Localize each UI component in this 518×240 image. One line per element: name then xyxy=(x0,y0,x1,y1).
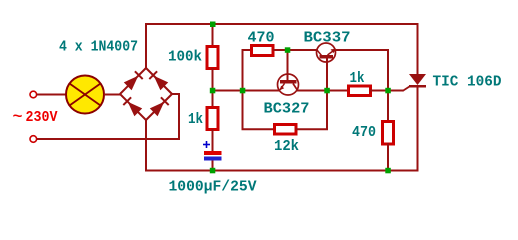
resistor 1k left xyxy=(207,108,218,130)
resistor 100k xyxy=(207,47,218,69)
wire BC327 base vertical xyxy=(287,50,289,80)
node 470-right bottom rail xyxy=(385,168,391,174)
diode D1 top-left xyxy=(124,71,143,90)
resistor 470 right xyxy=(383,122,394,145)
svg-text:1000µF/25V: 1000µF/25V xyxy=(169,179,257,196)
svg-text:230V: 230V xyxy=(26,109,58,126)
svg-text:470: 470 xyxy=(248,30,275,47)
svg-text:4 x 1N4007: 4 x 1N4007 xyxy=(59,39,138,56)
diode D2 top-right xyxy=(149,71,168,90)
node mid rail 470-left/12k xyxy=(240,88,246,94)
wire mid rail BC327 to node xyxy=(297,90,349,92)
svg-text:470: 470 xyxy=(352,124,376,141)
diode D3 bottom-left xyxy=(123,97,142,116)
terminal bottom-left xyxy=(30,136,37,143)
wire lamp to bridge xyxy=(104,94,121,96)
wire terminal to lamp xyxy=(37,94,66,96)
wire capacitor to bottom rail xyxy=(212,161,214,171)
wire bottom rail xyxy=(145,170,419,172)
capacitor C1 plus sign xyxy=(203,141,210,148)
capacitor C1 plates xyxy=(204,151,222,161)
transistor Q1 BC327 xyxy=(278,74,299,95)
terminal top-left xyxy=(30,91,37,98)
wire 470 right to BC337 base xyxy=(273,49,317,51)
svg-text:12k: 12k xyxy=(274,138,299,155)
node BC327 base / 470 wire xyxy=(285,47,291,53)
resistor 470 top xyxy=(252,46,274,56)
svg-text:BC327: BC327 xyxy=(264,101,310,118)
svg-text:BC337: BC337 xyxy=(304,30,351,47)
wire 100k bottom lead xyxy=(212,68,214,108)
wire AC bottom xyxy=(37,94,179,139)
wire bridge bottom vertical xyxy=(145,119,147,172)
bridge diamond wires xyxy=(120,68,172,120)
svg-text:100k: 100k xyxy=(168,49,202,66)
wire mid rail left xyxy=(212,90,280,92)
node mid rail 100k/1k xyxy=(210,88,216,94)
wire 470 left vertical xyxy=(243,50,275,129)
wire BC337 collector xyxy=(326,58,328,91)
node gate junction xyxy=(385,88,391,94)
svg-text:~: ~ xyxy=(13,109,23,126)
node BC337 collector / 12k xyxy=(324,88,330,94)
thyristor TIC106D xyxy=(403,23,427,171)
wire top rail xyxy=(145,23,418,25)
resistor 12k xyxy=(275,125,297,135)
svg-text:1k: 1k xyxy=(188,111,203,128)
wire 1k to capacitor xyxy=(212,129,214,151)
wire 470 right bottom lead xyxy=(387,143,389,171)
lamp xyxy=(66,76,104,114)
wire 100k top lead xyxy=(212,23,214,46)
wire bridge top vertical xyxy=(145,23,147,69)
svg-text:TIC 106D: TIC 106D xyxy=(433,74,502,91)
wire 12k right xyxy=(296,91,328,129)
transistor Q2 BC337 xyxy=(317,43,337,62)
wire 1k right to gate node xyxy=(370,90,404,92)
svg-text:1k: 1k xyxy=(350,70,365,87)
resistor 1k right xyxy=(349,86,371,96)
node capacitor bottom rail xyxy=(210,168,216,174)
node top rail 100k xyxy=(210,22,216,28)
diode D4 bottom-right xyxy=(150,97,169,116)
wire BC337 emitter to corner xyxy=(335,50,388,121)
